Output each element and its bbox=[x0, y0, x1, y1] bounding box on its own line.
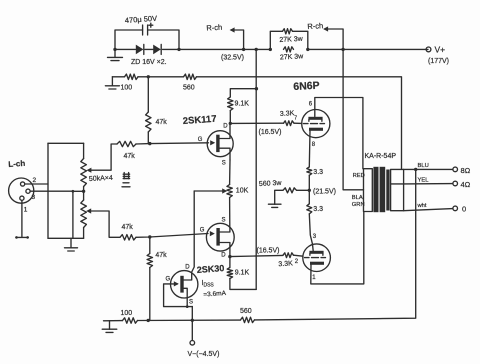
resistor R 3.3 (upper cathode) bbox=[307, 167, 312, 175]
transistor Q3 2SK30 bbox=[171, 271, 198, 298]
svg-text:D: D bbox=[185, 265, 190, 271]
resistor R 47k (upper gate series) bbox=[117, 141, 136, 146]
wire: wiper 1 to 47k bbox=[86, 168, 91, 173]
svg-text:2: 2 bbox=[33, 177, 37, 184]
ground for XLR pin1 bbox=[16, 236, 28, 238]
terminal 0 bbox=[453, 206, 458, 211]
resistor R 27K 3w lower (in bus) bbox=[284, 47, 294, 52]
svg-text:RED: RED bbox=[353, 173, 365, 179]
svg-text:3.3: 3.3 bbox=[313, 169, 323, 176]
wire: secondary WHT to 0 bbox=[404, 209, 453, 211]
svg-text:wht: wht bbox=[417, 203, 427, 209]
svg-text:S: S bbox=[222, 218, 226, 224]
resistor R 560 (upper feedback) bbox=[184, 74, 197, 79]
wire: 32.5V rail vertical bbox=[255, 49, 257, 289]
terminal 8 ohm bbox=[453, 167, 458, 172]
zener diode ZD1 bbox=[136, 45, 144, 55]
ground for zener filter bbox=[114, 49, 116, 57]
resistor R 47k vertical (upper gate bias) bbox=[147, 77, 149, 112]
transistor Q2 2SK117 lower bbox=[206, 223, 234, 251]
svg-text:6N6P: 6N6P bbox=[293, 80, 320, 93]
svg-text:2SK30: 2SK30 bbox=[196, 263, 224, 275]
svg-text:L-ch: L-ch bbox=[8, 159, 26, 169]
svg-text:R-ch: R-ch bbox=[206, 23, 222, 33]
svg-text:27K 3w: 27K 3w bbox=[280, 53, 305, 61]
svg-text:D: D bbox=[223, 124, 228, 130]
wire: top 32.5V bus bbox=[115, 48, 136, 50]
svg-text:3.3K: 3.3K bbox=[278, 260, 293, 268]
resistor R 9.1K (upper drain load) bbox=[230, 89, 256, 97]
svg-text:V+: V+ bbox=[435, 45, 446, 55]
svg-text:V−(−4.5V): V−(−4.5V) bbox=[188, 351, 220, 358]
svg-text:D: D bbox=[221, 252, 226, 258]
resistor R 47k vertical (lower gate bias) bbox=[149, 237, 151, 254]
transistor Q1 2SK117 bbox=[207, 131, 233, 157]
svg-text:560: 560 bbox=[240, 308, 252, 315]
resistor R 10K (between JFET sources) bbox=[229, 160, 231, 185]
svg-text:560: 560 bbox=[183, 85, 195, 92]
wire: R-ch tap right with arrow bbox=[325, 29, 344, 49]
zener diode ZD2 bbox=[153, 45, 161, 55]
resistor R 3.3K (lower grid stopper) bbox=[283, 253, 294, 258]
wire: pin3 to attenuator center bbox=[30, 190, 73, 192]
terminal 4 ohm bbox=[453, 181, 458, 186]
wire: R-ch tap left with arrow bbox=[231, 30, 244, 49]
wire: to 2SK117 gate bbox=[136, 143, 209, 144]
svg-text:50kA×4: 50kA×4 bbox=[89, 175, 113, 183]
svg-text:YEL: YEL bbox=[418, 178, 430, 184]
svg-text:GRN: GRN bbox=[352, 202, 365, 208]
tube U1b 6N6P lower triode bbox=[303, 244, 331, 272]
svg-text:27K 3w: 27K 3w bbox=[279, 36, 304, 44]
transformer T1 secondary winding bbox=[391, 169, 404, 210]
wire: attenuator input frame bbox=[47, 143, 49, 238]
wire: secondary BLU to 8 ohm bbox=[404, 168, 453, 170]
wire: to lower JFET gate bbox=[136, 234, 208, 238]
ground for attenuator bbox=[70, 238, 72, 248]
svg-text:BLU: BLU bbox=[418, 163, 429, 169]
wire: cathode down bbox=[308, 131, 311, 167]
svg-text:(21.5V): (21.5V) bbox=[313, 189, 336, 196]
wire: source to V- and bottom bus bbox=[191, 307, 193, 341]
svg-text:3.3: 3.3 bbox=[313, 206, 323, 213]
wire: upper drain to 6N6P grid, 3.3K stopper bbox=[230, 122, 283, 124]
resistor R 100 (upper feedback) bbox=[125, 74, 139, 79]
wire: wiper 2 to 47k bbox=[86, 208, 91, 213]
svg-text:10K: 10K bbox=[236, 188, 249, 195]
resistor R 47k (lower gate series) bbox=[120, 235, 136, 240]
wire: B+ to transformer BLA bbox=[343, 49, 363, 189]
svg-text:G: G bbox=[198, 137, 203, 143]
ground for lower feedback divider bbox=[109, 321, 111, 330]
resistor R 560 (lower feedback) bbox=[241, 317, 255, 322]
svg-text:2SK117: 2SK117 bbox=[182, 114, 216, 127]
svg-text:3: 3 bbox=[32, 194, 36, 201]
wire: 2SK30 drain up to 10K arrow bbox=[184, 191, 195, 280]
capacitor C1 470u 50V electrolytic bbox=[115, 30, 143, 49]
svg-text:S: S bbox=[222, 161, 226, 167]
svg-text:BLA: BLA bbox=[352, 195, 363, 201]
svg-text:4Ω: 4Ω bbox=[461, 180, 471, 189]
wire: CCS injection arrow into 10K bbox=[194, 190, 223, 192]
svg-text:100: 100 bbox=[121, 310, 133, 317]
svg-text:47k: 47k bbox=[124, 153, 136, 160]
svg-text:G: G bbox=[200, 228, 205, 234]
svg-text:100: 100 bbox=[121, 85, 133, 92]
svg-text:G: G bbox=[166, 277, 171, 283]
potentiometer VR1b 50kA lower bbox=[81, 200, 87, 228]
wire: pin1 to ground bbox=[21, 200, 23, 237]
junction dots on top bus bbox=[113, 48, 116, 51]
terminal V- bbox=[190, 341, 195, 346]
wire: 2SK30 gate-source loop bbox=[164, 284, 193, 307]
svg-text:7: 7 bbox=[294, 116, 297, 122]
wire: plate to transformer RED bbox=[315, 98, 363, 169]
svg-text:9.1K: 9.1K bbox=[235, 270, 250, 277]
svg-text:3.3K: 3.3K bbox=[280, 110, 295, 118]
svg-text:R-ch: R-ch bbox=[307, 21, 323, 31]
svg-text:8Ω: 8Ω bbox=[461, 166, 471, 175]
wire: upper feedback bus bbox=[112, 76, 124, 78]
resistor R 27K 3w upper (parallel pair) bbox=[270, 31, 282, 49]
svg-text:KA-R-54P: KA-R-54P bbox=[365, 153, 397, 160]
svg-text:(177V): (177V) bbox=[428, 58, 449, 65]
ground for upper feedback divider bbox=[111, 77, 113, 86]
potentiometer VR1a 50kA upper bbox=[83, 143, 85, 158]
wire: 2SK30 source down bbox=[184, 288, 188, 306]
transformer T1 primary winding bbox=[364, 169, 373, 212]
svg-text:1: 1 bbox=[24, 207, 28, 214]
svg-text:ZD 16V ×2.: ZD 16V ×2. bbox=[131, 59, 167, 66]
resistor R 100 (lower feedback) bbox=[123, 318, 138, 323]
ground for 560 3w bbox=[274, 203, 276, 205]
transformer T1 core bbox=[373, 167, 378, 212]
tube U1a 6N6P upper triode bbox=[302, 110, 330, 138]
resistor R 3.3K (upper grid stopper) bbox=[284, 121, 295, 126]
svg-text:47k: 47k bbox=[155, 252, 167, 259]
svg-text:S: S bbox=[189, 300, 193, 306]
svg-text:47k: 47k bbox=[156, 119, 168, 126]
wire: pin2 to attenuator bbox=[25, 183, 48, 185]
wire: bottom feedback bus bbox=[104, 320, 123, 322]
svg-text:(32.5V): (32.5V) bbox=[221, 55, 244, 62]
connector J1 L-ch XLR bbox=[9, 178, 34, 203]
wire: lower drain to 6N6P grid, 3.3K stopper bbox=[230, 255, 283, 256]
wire: lower cathode to transformer GRN bbox=[311, 212, 364, 284]
svg-text:560 3w: 560 3w bbox=[259, 180, 283, 188]
terminal V+ (177V) bbox=[426, 47, 431, 52]
resistor R 9.1K (lower drain load) bbox=[229, 257, 231, 268]
wire: lower plate lead bbox=[312, 244, 315, 251]
svg-text:9.1K: 9.1K bbox=[235, 101, 250, 108]
resistor R 3.3 (lower plate side) bbox=[307, 204, 312, 214]
svg-text:0: 0 bbox=[462, 205, 466, 214]
svg-text:(16.5V): (16.5V) bbox=[257, 248, 280, 255]
svg-text:47k: 47k bbox=[122, 224, 134, 231]
wire: pot center tap to ground rail bbox=[82, 190, 85, 193]
svg-text:(16.5V): (16.5V) bbox=[259, 129, 282, 136]
wire: secondary YEL to 4 ohm bbox=[404, 183, 453, 185]
